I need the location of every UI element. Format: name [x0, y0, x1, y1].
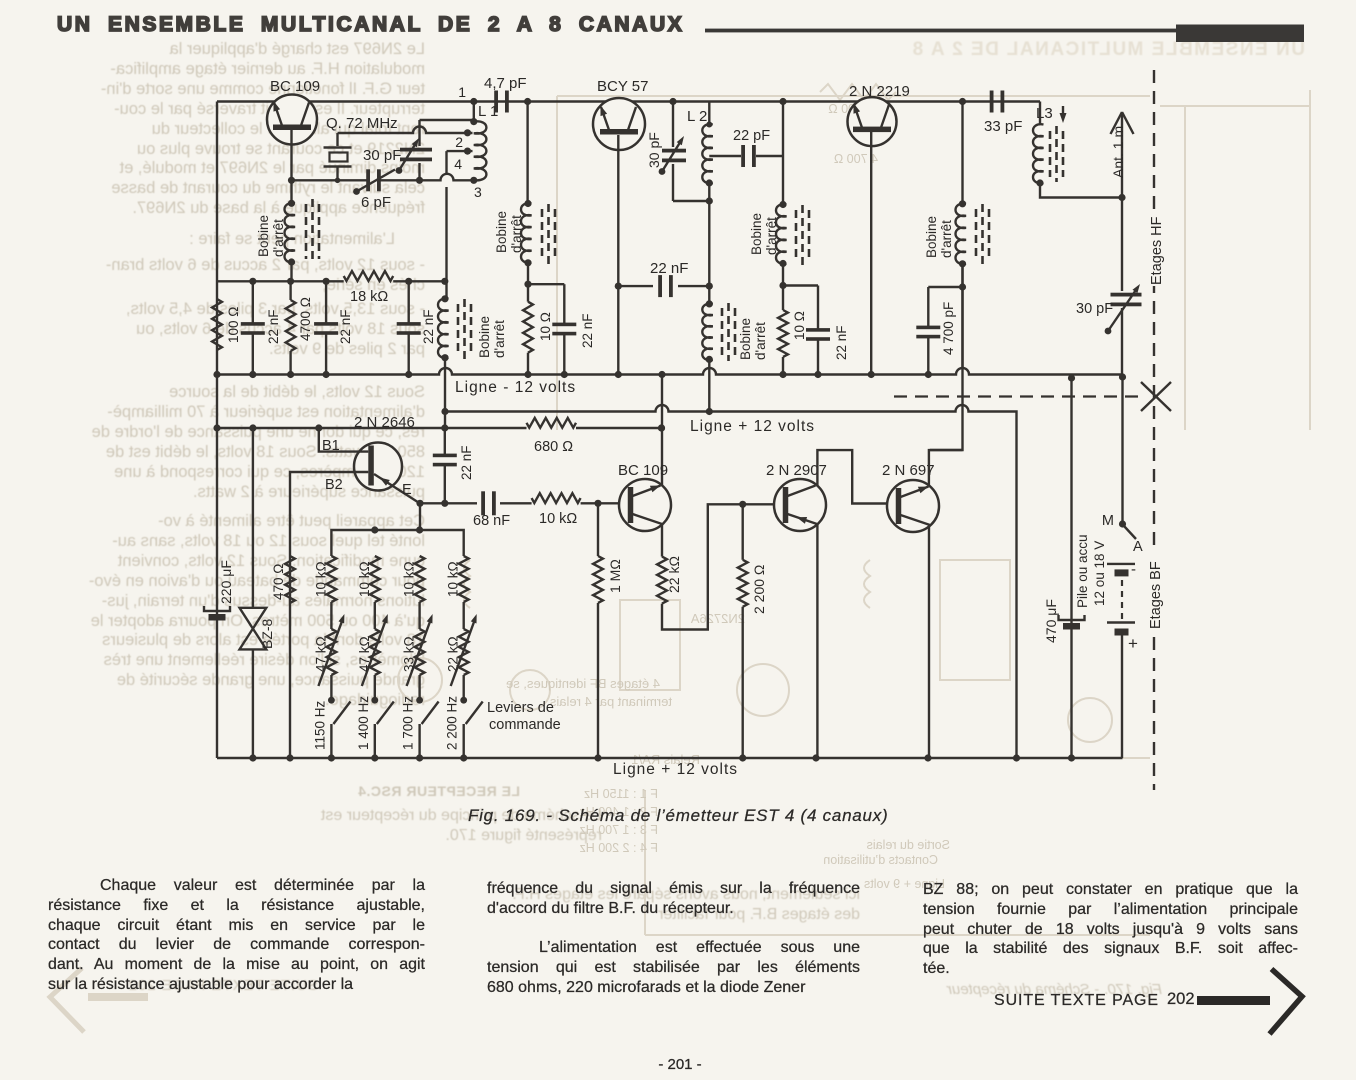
coil bobine d'arret under BC109: [288, 200, 295, 207]
wire crystal top row y=133: [338, 127, 473, 134]
wire -12V down to 470uF: [1070, 378, 1072, 758]
footer arrow: [1197, 996, 1270, 1005]
svg-text:100 Ω: 100 Ω: [226, 307, 241, 343]
header rule: [705, 29, 1177, 33]
node tap4: [464, 148, 471, 155]
svg-text:2 200 Hz: 2 200 Hz: [445, 696, 460, 750]
svg-text:47 kΩ: 47 kΩ: [313, 636, 328, 672]
svg-text:22 nF: 22 nF: [421, 309, 436, 344]
wire B2: [290, 472, 368, 758]
zener BZ-8 branch: [252, 427, 254, 607]
coil bobine d'arret x783: [776, 204, 787, 264]
coil bobine d'arret x709: [706, 300, 713, 307]
svg-text:220 μF: 220 μF: [218, 560, 234, 604]
trimmer capacitor 6 pF: [366, 169, 370, 191]
wire left vertical rail: [216, 102, 218, 759]
resistor 4700 Ohm: [286, 300, 296, 351]
wire B1: [319, 428, 369, 452]
node junction left rail / -12V rail: [213, 371, 220, 378]
svg-text:22 nF: 22 nF: [650, 260, 688, 277]
svg-text:Ligne + 12 volts: Ligne + 12 volts: [690, 418, 815, 435]
wire 2N2907 collector up/over: [817, 450, 895, 503]
switch lever 1 400 Hz: [371, 697, 378, 704]
svg-text:10 kΩ: 10 kΩ: [539, 511, 577, 527]
resistor adjustable 47 kΩ: [327, 629, 337, 675]
wire measurement row y=281: [217, 280, 344, 282]
svg-text:1 MΩ: 1 MΩ: [607, 559, 623, 593]
resistor 680 Ohm: [527, 418, 577, 428]
svg-text:2 N 697: 2 N 697: [882, 462, 935, 479]
capacitor 68 nF: [481, 491, 485, 515]
node tap2: [464, 129, 471, 136]
svg-text:BZ-8: BZ-8: [259, 618, 275, 649]
wire 2N2907 emitter down: [816, 524, 818, 758]
svg-text:2: 2: [455, 134, 463, 150]
battery pile ou accu: [1107, 563, 1135, 565]
transistor 2N2219: [848, 97, 897, 146]
svg-text:+: +: [1128, 634, 1138, 653]
svg-text:d'arrêt: d'arrêt: [271, 219, 286, 257]
switch lever 2 200 Hz: [460, 697, 467, 704]
wire BC109 base lead down: [290, 130, 292, 203]
node 1: [470, 98, 477, 105]
svg-text:1150 Hz: 1150 Hz: [312, 700, 327, 750]
trimmer capacitor 30 pF (2): [672, 102, 674, 148]
wire 2N697 emitter down: [928, 524, 930, 758]
wire signal row y=503: [420, 502, 477, 504]
svg-text:A: A: [1133, 539, 1143, 555]
svg-text:470 Ω: 470 Ω: [271, 564, 286, 600]
svg-text:B2: B2: [325, 477, 343, 493]
svg-text:47 kΩ: 47 kΩ: [357, 636, 372, 672]
svg-text:3: 3: [474, 184, 482, 200]
wire BC109 base row y=180: [292, 179, 368, 181]
svg-text:Bobine: Bobine: [477, 316, 492, 358]
wire top supply rail: [217, 100, 1040, 102]
capacitor 470 uF: [1059, 615, 1085, 620]
capacitor 22 nF (4): [528, 283, 564, 285]
svg-text:22 nF: 22 nF: [580, 313, 595, 348]
svg-text:Leviers de: Leviers de: [487, 700, 554, 716]
wire bottom +12V rail: [217, 757, 1123, 759]
svg-text:d'arrêt: d'arrêt: [753, 322, 768, 360]
wire 680 row y=429: [217, 427, 527, 429]
switch M/A: [1121, 377, 1123, 524]
resistor 22 kOhm: [657, 557, 667, 604]
antenna Ant. 1m: [1121, 112, 1123, 198]
resistor 1 MOhm: [597, 503, 599, 556]
wire resistor bank top row: [331, 530, 463, 556]
wire to L2 column: [673, 200, 709, 202]
svg-text:22 pF: 22 pF: [733, 128, 770, 144]
svg-text:Bobine: Bobine: [494, 211, 509, 253]
transistor BCY 57: [593, 98, 645, 150]
wire 2N2219 lead down: [870, 132, 872, 375]
svg-text:18 kΩ: 18 kΩ: [350, 289, 388, 305]
svg-text:Q. 72 MHz: Q. 72 MHz: [326, 115, 398, 132]
svg-text:10 kΩ: 10 kΩ: [357, 561, 372, 597]
svg-text:L 2: L 2: [687, 108, 707, 125]
svg-text:BCY 57: BCY 57: [597, 78, 648, 95]
svg-text:Ligne + 12 volts: Ligne + 12 volts: [613, 761, 738, 778]
svg-text:33 kΩ: 33 kΩ: [402, 636, 417, 672]
wire L3 to antenna node: [1040, 183, 1122, 198]
svg-text:Etages HF: Etages HF: [1149, 216, 1165, 285]
svg-text:Bobine: Bobine: [738, 318, 753, 360]
resistor 470 Ohm on B2 branch: [285, 556, 295, 603]
node -12V / M line: [1119, 373, 1126, 380]
wire down from 4.7pF node: [526, 102, 528, 204]
node top rail x=962.5: [959, 98, 966, 105]
svg-text:L3: L3: [1036, 105, 1053, 122]
svg-text:22 nF: 22 nF: [338, 309, 353, 344]
resistor 10 kOhm coupling: [532, 493, 581, 503]
svg-text:30 pF: 30 pF: [363, 147, 401, 164]
svg-text:470 μF: 470 μF: [1043, 599, 1059, 643]
svg-text:E: E: [402, 482, 412, 498]
dashed line Etages HF/BF: [1153, 70, 1155, 790]
svg-text:d'arrêt: d'arrêt: [492, 320, 507, 358]
svg-text:B1: B1: [322, 438, 340, 454]
svg-text:10 Ω: 10 Ω: [792, 311, 807, 340]
svg-text:22 kΩ: 22 kΩ: [666, 556, 682, 593]
svg-text:Pile ou accu: Pile ou accu: [1075, 534, 1090, 608]
svg-text:d'arrêt: d'arrêt: [764, 217, 779, 255]
svg-text:Ligne - 12 volts: Ligne - 12 volts: [455, 379, 576, 396]
svg-text:10 Ω: 10 Ω: [538, 312, 553, 341]
coil bobine d'arret x962: [956, 204, 967, 265]
svg-text:Etages BF: Etages BF: [1148, 561, 1164, 629]
svg-text:4: 4: [454, 156, 462, 172]
svg-text:4 700 pF: 4 700 pF: [941, 302, 956, 355]
resistor adjustable 22 kΩ: [459, 629, 469, 675]
node top rail x=673: [669, 98, 676, 105]
coil bobine d'arret x528: [521, 203, 532, 263]
svg-text:2 200 Ω: 2 200 Ω: [751, 565, 767, 614]
resistor 10 kOhm bank 2: [370, 556, 380, 602]
wire choke column x=446: [445, 151, 447, 299]
svg-text:4700 Ω: 4700 Ω: [298, 297, 313, 341]
svg-text:33 pF: 33 pF: [984, 118, 1022, 135]
capacitor 22 nF (2): [325, 281, 327, 324]
switch lever 1 700 Hz: [416, 697, 423, 704]
transistor BC109 oscillator: [267, 95, 317, 145]
svg-text:30 pF: 30 pF: [646, 132, 662, 168]
svg-text:Bobine: Bobine: [749, 213, 764, 255]
svg-text:BC 109: BC 109: [618, 462, 668, 479]
transistor BC109 (2): [619, 479, 671, 531]
resistor 18 kOhm: [344, 271, 394, 281]
wire x=783 column: [779, 98, 786, 105]
node after 4.7pF: [524, 98, 531, 105]
wire E emitter 2N2646: [374, 474, 419, 503]
svg-text:Bobine: Bobine: [924, 216, 939, 258]
wire x=962.5 column: [961, 102, 963, 204]
svg-text:d'arrêt: d'arrêt: [509, 215, 524, 253]
capacitor 22 nF (5) series: [618, 285, 653, 287]
svg-text:-: -: [1131, 561, 1136, 578]
crossing X mark: [1141, 382, 1171, 411]
svg-text:1 400 Hz: 1 400 Hz: [356, 696, 371, 750]
resistor 100 Ohm: [212, 299, 222, 350]
svg-text:Bobine: Bobine: [256, 215, 271, 257]
resistor 2200 Ohm: [742, 504, 744, 560]
wire E down to switch row: [419, 503, 421, 530]
svg-text:1 700 Hz: 1 700 Hz: [401, 696, 416, 750]
trimmer capacitor 30 pF (3): [1121, 198, 1123, 292]
capacitor 22 nF (6b) shunt: [783, 284, 818, 286]
svg-text:4,7 pF: 4,7 pF: [484, 75, 527, 92]
resistor 10 kOhm bank 1: [327, 556, 337, 602]
wire collector feed x=662: [661, 375, 663, 486]
switch lever 1150 Hz: [328, 697, 335, 704]
svg-text:22 nF: 22 nF: [459, 445, 474, 480]
svg-text:680 Ω: 680 Ω: [534, 439, 573, 455]
capacitor 22 nF (1): [252, 281, 254, 324]
svg-text:2 N 2219: 2 N 2219: [849, 83, 910, 100]
coil bobine d'arret x445: [438, 299, 449, 359]
svg-text:12 ou 18 V: 12 ou 18 V: [1092, 541, 1107, 606]
capacitor 22 nF (6): [444, 428, 446, 456]
svg-text:22 nF: 22 nF: [834, 325, 849, 360]
capacitor 4700 pF: [928, 286, 962, 288]
svg-text:BC 109: BC 109: [270, 78, 320, 95]
svg-text:commande: commande: [489, 717, 561, 733]
transistor 2N697: [887, 480, 939, 532]
svg-text:2 N 2646: 2 N 2646: [354, 414, 415, 431]
wire Ligne -12 volts rail with hops: [217, 368, 1123, 375]
svg-text:22 nF: 22 nF: [266, 309, 281, 344]
svg-text:10 kΩ: 10 kΩ: [402, 561, 417, 597]
resistor adjustable 33 kΩ: [415, 629, 425, 675]
capacitor 220 uF on left rail: [204, 606, 230, 611]
svg-text:d'arrêt: d'arrêt: [939, 220, 954, 258]
wire base 2N2907: [743, 503, 788, 505]
resistor 10 kOhm bank 3: [415, 556, 425, 602]
wire BC109b emitter down + 22k: [661, 524, 663, 557]
resistor 10 Ohm (2): [778, 310, 788, 357]
wire 2N697 collector up: [929, 450, 963, 486]
svg-text:1: 1: [458, 84, 466, 100]
svg-text:10 kΩ: 10 kΩ: [446, 561, 461, 597]
wire tap4 to choke column: [447, 150, 473, 152]
transistor 2N2907: [774, 479, 826, 531]
svg-text:22 kΩ: 22 kΩ: [446, 636, 461, 672]
svg-text:M: M: [1102, 513, 1114, 529]
svg-text:68 nF: 68 nF: [473, 513, 510, 529]
wire Ligne +12 volts rail upper with hops: [445, 405, 1017, 758]
svg-text:30 pF: 30 pF: [1076, 301, 1113, 317]
wire BCY57 emitter down: [617, 135, 619, 375]
svg-text:10 kΩ: 10 kΩ: [313, 561, 328, 597]
resistor 10 kOhm bank 4: [459, 556, 469, 602]
resistor adjustable 47 kΩ: [370, 629, 380, 675]
svg-text:Ant. 1 m: Ant. 1 m: [1110, 126, 1126, 178]
capacitor 22 nF (3): [408, 281, 410, 324]
svg-text:6 pF: 6 pF: [361, 194, 391, 211]
resistor 10 Ohm (1): [523, 302, 533, 353]
